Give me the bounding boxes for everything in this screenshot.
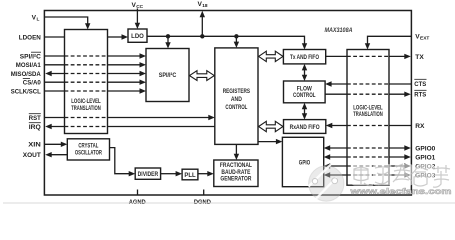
block: Tx AND FIFO (283, 50, 325, 64)
wire: dashed CS inside left block (65, 81, 108, 83)
block: fractional baud-rate generator (214, 160, 258, 187)
svg-text:www.elecfans.com: www.elecfans.com (349, 186, 452, 196)
wire: XIN to crystal oscillator (44, 143, 61, 145)
wire: V18 rail from LDO (147, 36, 305, 43)
svg-text:CC: CC (136, 4, 143, 10)
svg-text:RST: RST (29, 115, 41, 122)
block: PLL (182, 169, 198, 180)
svg-text:GPIO0: GPIO0 (415, 145, 435, 152)
wire: dashed SCLK inside left block (65, 90, 108, 92)
arrowhead down into Rx FIFO top (302, 113, 307, 119)
svg-text:BAUD-RATE: BAUD-RATE (221, 170, 250, 176)
block: LDO (128, 29, 147, 42)
block: crystal oscillator (67, 139, 109, 160)
wire: SCLK/SCL signal (44, 90, 140, 92)
arrowhead into baud-rate generator (207, 171, 214, 176)
wire: RTS from flow control (325, 93, 404, 95)
arrowhead LDOEN into LDO (122, 34, 129, 39)
arrowhead GPIO3 into GPIO block (324, 172, 331, 177)
arrowhead GPIO2 out right (404, 163, 411, 168)
svg-text:XIN: XIN (28, 142, 41, 149)
svg-text:CONTROL: CONTROL (293, 93, 316, 99)
arrowhead V18 up (200, 11, 205, 17)
wire: crystal oscillator to divider (110, 148, 130, 174)
pin label SPI/I2C (20, 52, 41, 60)
wire: dashed SPI/I2C inside left block (65, 55, 108, 57)
svg-text:IRQ: IRQ (29, 124, 41, 131)
wire: RX to Rx FIFO (332, 125, 411, 127)
wire: VEXT to right translation block (368, 36, 412, 43)
svg-text:CS/A0: CS/A0 (23, 80, 41, 87)
svg-text:OSCILLATOR: OSCILLATOR (75, 151, 102, 157)
arrowhead CS into SPI block (140, 80, 147, 85)
arrowhead XIN into crystal oscillator (61, 142, 68, 147)
bus arrow SPI block to registers (190, 71, 215, 81)
svg-text:PLL: PLL (184, 173, 196, 179)
svg-text:CTS: CTS (414, 81, 427, 88)
block: registers and control (215, 48, 258, 144)
svg-text:LOGIC-LEVEL: LOGIC-LEVEL (71, 99, 101, 105)
junction V18 rail at V18 pin (200, 34, 204, 38)
wire: GPIO2 (330, 165, 405, 167)
arrowhead IRQ out left (45, 124, 52, 129)
wire: RST to registers (44, 117, 208, 119)
block: SPI/I2C interface U-spi (146, 49, 189, 102)
wire: dashed IRQ inside left block (65, 126, 108, 128)
svg-text:SCLK/SCL: SCLK/SCL (11, 88, 41, 95)
pin label VEXT (415, 34, 429, 42)
arrowhead down into flow control top (302, 75, 307, 81)
svg-text:TRANSLATION: TRANSLATION (71, 106, 101, 112)
svg-text:RxAND FIFO: RxAND FIFO (290, 125, 320, 131)
svg-text:SPI/I²C: SPI/I²C (20, 53, 41, 60)
svg-text:RX: RX (415, 123, 425, 130)
wire: MISO/SDA signal (51, 73, 140, 75)
wire: IRQ from registers (51, 126, 215, 128)
pin label CTS (414, 79, 427, 88)
wire: PLL to baud-rate generator (198, 173, 208, 175)
wire: translation block to LDO input (108, 36, 123, 38)
page rule line (3, 202, 455, 204)
wire: VCC down to LDO (136, 9, 138, 24)
arrowhead GPIO2 into GPIO block (324, 163, 331, 168)
arrowhead MOSI into SPI block (140, 62, 147, 67)
arrowhead GPIO3 out right (404, 172, 411, 177)
chip outline MAX3108A (44, 11, 411, 196)
svg-text:FRACTIONAL: FRACTIONAL (220, 163, 252, 169)
wire: MOSI/A1 signal (44, 64, 140, 66)
block: flow control (284, 81, 326, 103)
wire: registers to baud-rate generator (235, 144, 237, 154)
ground pin AGND stub (137, 190, 139, 196)
arrowhead SCLK into SPI block (140, 88, 147, 93)
arrowhead into divider (129, 171, 136, 176)
svg-text:GPIO1: GPIO1 (415, 154, 435, 161)
junction V18 rail at SPI branch (166, 34, 170, 38)
wire: flow control to Rx FIFO vertical link (304, 108, 306, 115)
svg-text:LDO: LDO (131, 34, 144, 40)
wire: V18 branch down to SPI block (167, 36, 169, 42)
svg-text:MOSI/A1: MOSI/A1 (16, 62, 41, 69)
svg-text:GPIO: GPIO (299, 161, 311, 167)
arrowhead GPIO0 into GPIO block (324, 145, 331, 150)
svg-text:EXT: EXT (420, 36, 429, 42)
svg-text:CONTROL: CONTROL (225, 105, 247, 111)
svg-text:MISO/SDA: MISO/SDA (11, 71, 41, 78)
svg-text:LOGIC-LEVEL: LOGIC-LEVEL (353, 106, 383, 112)
block: left logic-level translation (65, 30, 108, 134)
wire: dashed GPIO1 inside right block (347, 156, 389, 158)
block: right logic-level translation (347, 50, 389, 186)
pin label V18 (198, 1, 208, 9)
wire: dashed CTS inside right block (347, 83, 389, 85)
ground pin DGND stub (203, 190, 205, 196)
arrowhead rail into Tx FIFO (302, 43, 307, 49)
svg-text:MAX3108A: MAX3108A (325, 27, 353, 34)
arrowhead MISO out left (45, 71, 52, 76)
arrowhead GPIO0 out right (404, 145, 411, 150)
arrowhead GPIO1 out right (404, 154, 411, 159)
wire: dashed RX inside right block (347, 125, 389, 127)
arrowhead up into flow control bottom (302, 103, 307, 110)
junction V18 rail at registers branch (234, 34, 238, 38)
wire: divider to PLL (161, 173, 176, 175)
arrowhead VL into left block (85, 23, 90, 29)
wire: GPIO0 (330, 147, 405, 149)
wire: dashed RST inside left block (65, 117, 108, 119)
wire: Tx FIFO to flow control vertical link (304, 69, 306, 76)
wire: CS/A0 signal (44, 81, 140, 83)
arrowhead CTS into flow control (325, 81, 332, 86)
bus arrow registers to Tx FIFO (259, 51, 283, 61)
wire: GPIO3 (330, 174, 405, 176)
arrowhead TX out right (404, 54, 411, 59)
arrowhead RX into Rx FIFO (326, 123, 333, 128)
svg-text:AGND: AGND (129, 199, 146, 206)
svg-text:SPI/I²C: SPI/I²C (159, 72, 177, 79)
svg-text:GENERATOR: GENERATOR (220, 177, 252, 183)
svg-text:L: L (37, 17, 40, 23)
wire: dashed GPIO2 inside right block (347, 165, 389, 167)
arrowhead registers into baud-rate generator (234, 154, 239, 160)
svg-text:DIVIDER: DIVIDER (138, 172, 159, 178)
block: GPIO (282, 137, 323, 186)
wire: GPIO1 (330, 156, 405, 158)
svg-text:XOUT: XOUT (23, 152, 41, 159)
arrowhead up into Tx FIFO bottom (302, 64, 307, 71)
svg-text:Tx AND FIFO: Tx AND FIFO (290, 55, 319, 61)
wire: V18 branch up to V18 pin (201, 17, 203, 36)
pin label RTS (414, 90, 427, 98)
wire: XOUT from crystal oscillator (51, 154, 67, 156)
svg-text:AND: AND (231, 97, 243, 103)
pin label IRQ (29, 123, 41, 131)
arrowhead GPIO1 into GPIO block (324, 154, 331, 159)
wire: registers to GPIO (258, 141, 276, 143)
wire: dashed RTS inside right block (347, 93, 389, 95)
arrowhead rail into SPI block (165, 42, 170, 48)
svg-text:REGISTERS: REGISTERS (223, 89, 250, 95)
watermark logo disc (309, 165, 344, 201)
svg-text:TX: TX (415, 54, 424, 61)
arrowhead into PLL (176, 171, 183, 176)
arrowhead MISO into SPI block (140, 71, 147, 76)
arrowhead rail into registers (234, 42, 239, 48)
pin label VCC (132, 2, 144, 10)
wire: V18 branch down to registers (235, 36, 237, 42)
block: Rx AND FIFO (284, 120, 326, 134)
wire: SPI/I2C signal (44, 55, 140, 57)
svg-text:RTS: RTS (414, 92, 427, 99)
wire: dashed TX inside right block (347, 55, 389, 57)
svg-text:FLOW: FLOW (297, 86, 312, 92)
watermark chinese characters (354, 164, 450, 187)
pin label RST (29, 114, 41, 122)
svg-text:DGND: DGND (194, 199, 211, 206)
wire: VL pin to left translation block (44, 17, 87, 24)
arrowhead VCC into LDO (135, 23, 140, 29)
wire: dashed GPIO3 inside right block (347, 174, 389, 176)
block: divider (135, 168, 160, 179)
wire: CTS to flow control (332, 83, 412, 85)
wire: LDOEN to translation block edge (44, 36, 64, 38)
wire: TX from Tx FIFO (326, 55, 405, 57)
svg-text:LDOEN: LDOEN (19, 34, 41, 41)
arrowhead VEXT into right block (365, 43, 370, 49)
svg-text:CRYSTAL: CRYSTAL (78, 143, 98, 149)
bus arrow registers to Rx FIFO (259, 121, 283, 131)
arrowhead XOUT out left (45, 152, 52, 157)
arrowhead RTS out right (404, 92, 411, 97)
wire: dashed MISO inside left block (65, 73, 108, 75)
pin label VL (32, 15, 40, 23)
arrowhead SPI/I2C into SPI block (140, 53, 147, 58)
wire: dashed MOSI inside left block (65, 64, 108, 66)
arrowhead registers into GPIO (276, 139, 283, 144)
svg-text:18: 18 (202, 3, 208, 9)
wire: dashed GPIO0 inside right block (347, 147, 389, 149)
arrowhead RST into registers (208, 115, 215, 120)
pin label CS/A0 (23, 78, 41, 86)
svg-text:TRANSLATION: TRANSLATION (353, 112, 383, 118)
watermark white backing for characters (352, 164, 455, 186)
